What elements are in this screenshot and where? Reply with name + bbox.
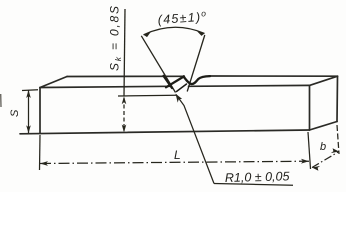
L arrow left xyxy=(40,161,48,166)
front face right edge xyxy=(309,85,311,130)
top face left slant edge xyxy=(40,77,67,88)
svg-text:(45±1)o: (45±1)o xyxy=(157,8,208,27)
S arrow down xyxy=(26,125,31,133)
side face back right edge xyxy=(336,76,339,121)
angle arc right arrowhead xyxy=(197,31,205,36)
L dimension left extension line xyxy=(39,135,42,170)
front face left edge xyxy=(39,88,41,134)
front face top edge right of notch xyxy=(189,84,310,87)
side face bottom slant edge xyxy=(310,122,338,131)
b dimension extension line (back right edge extended) xyxy=(337,125,339,154)
R leader arrowhead at root xyxy=(176,94,183,103)
angle dimension arc xyxy=(144,27,205,34)
svg-text:b: b xyxy=(320,141,326,153)
S dimension top extension tick xyxy=(22,89,38,92)
svg-text:S: S xyxy=(9,109,21,117)
Sk arrow up xyxy=(122,96,127,104)
R leader underline shelf xyxy=(214,184,293,186)
top face back edge right of notch xyxy=(209,75,338,77)
front face bottom edge xyxy=(20,130,310,134)
Sk dimension extension line above notch xyxy=(124,9,125,96)
R leader line from notch root xyxy=(176,95,214,184)
svg-text:L: L xyxy=(174,148,181,162)
b arrow lower-left xyxy=(312,166,320,171)
svg-text:R1,0 ± 0,05: R1,0 ± 0,05 xyxy=(225,169,290,185)
notch V right flank line (angle line right) xyxy=(187,35,205,92)
Sk arrow down xyxy=(122,125,127,133)
Sk dimension line (dashed) xyxy=(123,98,125,131)
b dimension line (dash-dot, slanted) xyxy=(312,152,339,168)
notch root depth edge xyxy=(177,84,187,92)
notch left corner depth edge (thick) xyxy=(166,76,184,87)
left edge scan mark xyxy=(0,94,2,107)
notch back V swoosh with radius xyxy=(184,76,211,84)
L dimension line (dash-dot) xyxy=(40,161,309,163)
S dimension line xyxy=(28,91,30,134)
top face back edge left of notch xyxy=(67,75,184,77)
L arrow right xyxy=(301,159,309,164)
S arrow up xyxy=(26,90,31,98)
L dimension right extension line xyxy=(308,132,311,169)
angle arc left arrowhead xyxy=(144,32,152,38)
notch small left triangle stroke xyxy=(164,76,173,88)
front face top edge left of notch xyxy=(40,86,170,87)
notch V left flank line (angle line left) xyxy=(141,36,175,93)
b arrow upper-right xyxy=(331,148,339,153)
Sk notch-depth level line xyxy=(118,94,176,97)
top face right slant edge xyxy=(310,76,338,85)
svg-text:Sk = 0,8S: Sk = 0,8S xyxy=(108,4,124,71)
